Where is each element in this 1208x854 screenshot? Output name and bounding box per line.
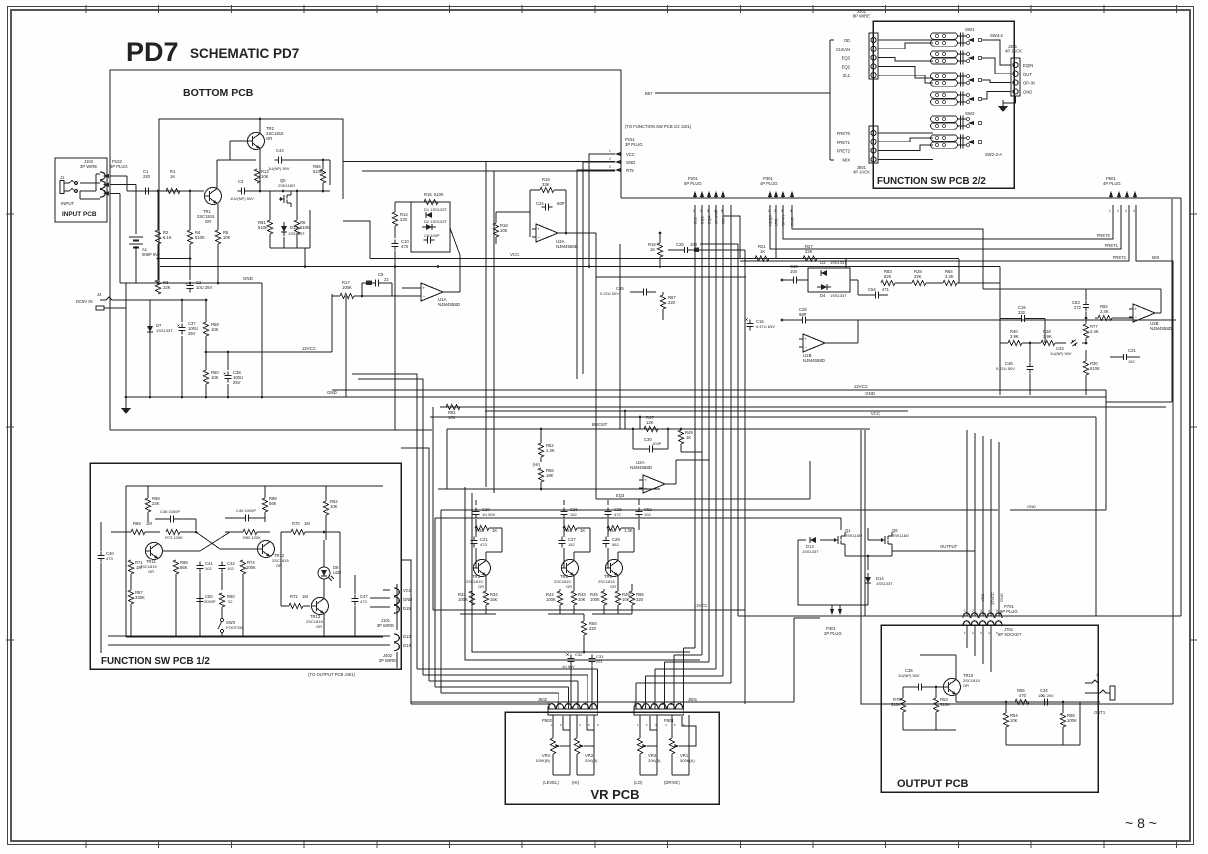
wire stair to VR J501 (684, 647, 696, 649)
battery A1 006P 9V (135, 185, 137, 234)
svg-text:510K: 510K (940, 702, 950, 707)
svg-text:GR: GR (478, 584, 484, 589)
resistor R61 (563, 525, 577, 530)
wire MIX long (1136, 205, 1173, 704)
capacitor C29 (605, 536, 607, 540)
svg-text:+: + (804, 337, 807, 342)
svg-text:C48 1000P: C48 1000P (160, 509, 180, 514)
svg-text:100K: 100K (246, 565, 256, 570)
BOTTOM PCB box outline (110, 70, 621, 430)
svg-text:1K: 1K (492, 528, 497, 533)
svg-text:GND: GND (327, 390, 337, 395)
svg-text:5: 5 (674, 723, 676, 727)
diode D4 1SS133T (821, 284, 827, 290)
svg-text:5P PLUG: 5P PLUG (684, 181, 702, 186)
svg-text:1K: 1K (760, 249, 765, 254)
wire line into P401 from left (794, 617, 820, 619)
svg-text:4P JACK: 4P JACK (853, 170, 870, 175)
svg-text:1.3K: 1.3K (546, 448, 555, 453)
diode D2 1SS133T (426, 224, 432, 230)
svg-text:103: 103 (690, 242, 698, 247)
wires stage TR3 (475, 500, 477, 505)
capacitor C37 100U 25V (181, 323, 183, 327)
svg-text:6: 6 (597, 723, 599, 727)
svg-text:3.9K: 3.9K (1043, 334, 1052, 339)
svg-text:1M: 1M (302, 594, 308, 599)
svg-text:4P PLUG: 4P PLUG (760, 181, 778, 186)
svg-text:510K: 510K (300, 225, 310, 230)
transistor TR8 (562, 560, 579, 577)
capacitor C44 1U(NP)50V (274, 159, 278, 161)
wires bias network (157, 191, 159, 230)
capacitor C35 1U(NP) 50V (914, 686, 918, 688)
svg-text:3: 3 (980, 631, 982, 635)
svg-text:1: 1 (964, 609, 966, 613)
svg-text:1: 1 (964, 631, 966, 635)
svg-text:10K: 10K (1010, 718, 1018, 723)
resistor R46 (615, 591, 620, 605)
svg-text:4: 4 (714, 209, 716, 213)
wire J101 stack vertical (396, 584, 398, 630)
svg-text:10K: 10K (578, 597, 586, 602)
svg-text:INPUT: INPUT (61, 201, 74, 206)
svg-text:(TO OUTPUT PCB J401): (TO OUTPUT PCB J401) (308, 672, 355, 677)
resistor R43 (571, 591, 576, 605)
svg-text:510K: 510K (195, 235, 205, 240)
svg-text:2P PLUG: 2P PLUG (824, 631, 842, 636)
svg-text:470: 470 (1019, 693, 1027, 698)
rail 12VCC lower (433, 609, 745, 611)
svg-text:1M: 1M (304, 521, 310, 526)
svg-text:(HI): (HI) (572, 780, 580, 785)
svg-text:3: 3 (980, 609, 982, 613)
svg-text:100K: 100K (342, 285, 352, 290)
wire rail y518 (435, 517, 841, 519)
svg-text:510K: 510K (1090, 366, 1100, 371)
svg-text:1K: 1K (650, 247, 655, 252)
svg-text:5: 5 (721, 209, 723, 213)
wire DC rail (117, 299, 119, 301)
svg-text:SCHEMATIC PD7: SCHEMATIC PD7 (190, 46, 299, 61)
svg-text:C33: C33 (596, 654, 604, 659)
pot VR4 100K(B) LEVEL (552, 715, 554, 738)
svg-text:22K: 22K (152, 501, 160, 506)
svg-text:C49 1000P: C49 1000P (236, 508, 256, 513)
resistor R74 100K (240, 560, 245, 574)
resistor R60 10K (203, 370, 208, 384)
svg-text:SW1: SW1 (965, 27, 975, 32)
svg-text:2: 2 (671, 702, 673, 706)
svg-text:R70: R70 (292, 521, 300, 526)
svg-text:4: 4 (1133, 209, 1135, 213)
svg-text:2: 2 (1117, 209, 1119, 213)
wire bundle line7 to output feed (737, 244, 739, 616)
svg-text:(TO FUNCTION SW PCB 1/2 J101): (TO FUNCTION SW PCB 1/2 J101) (625, 124, 692, 129)
svg-text:J1: J1 (60, 175, 65, 180)
svg-text:BOOST: BOOST (592, 422, 608, 427)
svg-text:100K: 100K (1067, 718, 1077, 723)
svg-text:GND: GND (243, 276, 253, 281)
svg-text:3.9K: 3.9K (1010, 334, 1019, 339)
svg-text:10K: 10K (500, 228, 508, 233)
resistor R54 10K (1003, 713, 1008, 727)
svg-text:2: 2 (972, 609, 974, 613)
capacitor C45 0.22U 50V (639, 291, 643, 293)
resistor R82 2.4K (1098, 315, 1112, 320)
capacitor C25 103 (680, 249, 684, 251)
svg-text:1M: 1M (146, 521, 152, 526)
wire C1-R1 (152, 190, 166, 192)
svg-text:510K: 510K (313, 169, 323, 174)
svg-text:DC9V IN: DC9V IN (76, 299, 93, 304)
wire TR2 (230, 140, 247, 142)
svg-text:2: 2 (585, 702, 587, 706)
wires below J701 (966, 626, 968, 648)
svg-text:C8 100P: C8 100P (424, 233, 440, 238)
svg-text:4: 4 (988, 609, 990, 613)
wires J201 to switches (878, 39, 933, 41)
capacitor C27 (561, 536, 563, 540)
connector J101 3P WIRE (394, 588, 399, 613)
resistor R66 220 (629, 591, 634, 605)
svg-text:20K(B): 20K(B) (648, 758, 661, 763)
svg-text:0.47U 63V: 0.47U 63V (756, 324, 775, 329)
boost box (438, 429, 447, 489)
svg-text:3P WIRE: 3P WIRE (377, 623, 394, 628)
svg-text:FOOTSW: FOOTSW (226, 625, 244, 630)
svg-text:3P PLUG: 3P PLUG (110, 164, 128, 169)
svg-text:1: 1 (594, 702, 596, 706)
svg-text:GR: GR (148, 569, 154, 574)
svg-text:1: 1 (680, 702, 682, 706)
svg-text:INPUT PCB: INPUT PCB (62, 211, 97, 218)
capacitor C50 2000P (199, 594, 201, 598)
svg-text:2: 2 (609, 157, 611, 161)
capacitor C28 68P (798, 319, 802, 321)
svg-text:100K: 100K (590, 597, 600, 602)
svg-text:510K: 510K (891, 702, 901, 707)
svg-text:SW2-3-A: SW2-3-A (985, 152, 1002, 157)
svg-text:3: 3 (576, 702, 578, 706)
diode block box (808, 268, 850, 292)
wires J101 (339, 532, 341, 588)
svg-text:15K: 15K (490, 597, 498, 602)
svg-text:−: − (423, 294, 426, 299)
svg-text:10K: 10K (622, 597, 630, 602)
resistor R30 510K (1083, 361, 1088, 375)
rail y407 (440, 406, 1166, 408)
capacitor C30 103 (645, 448, 649, 450)
svg-text:C54: C54 (868, 287, 876, 292)
svg-text:220: 220 (400, 217, 408, 222)
svg-text:10K: 10K (261, 174, 269, 179)
stair into J502 (411, 703, 549, 705)
svg-text:R73 100K: R73 100K (165, 535, 183, 540)
svg-text:10K: 10K (223, 235, 231, 240)
svg-text:4: 4 (652, 702, 654, 706)
wire long GND rail (126, 396, 1106, 398)
resistor R5 10K (215, 230, 220, 244)
svg-text:OP-IN: OP-IN (1023, 81, 1035, 86)
svg-text:NJM4558D: NJM4558D (438, 302, 460, 307)
wire plug outputs (110, 175, 127, 177)
svg-text:J4: J4 (97, 292, 102, 297)
diode D1 1SS133T (426, 212, 432, 218)
capacitor C46 0.22U 50V (1029, 362, 1031, 366)
pot VR2 20K(B) HI (576, 715, 578, 738)
svg-text:D1 1SS133T: D1 1SS133T (424, 207, 447, 212)
wires diode block (800, 279, 808, 281)
fet Q6 2SK118O (880, 539, 885, 541)
FUNCTION SW PCB 1/2 box (90, 463, 401, 669)
block box Q1 (798, 540, 845, 605)
resistor R4 510K (187, 230, 192, 244)
svg-text:3: 3 (707, 209, 709, 213)
resistor R84 3.3K (943, 280, 957, 285)
svg-text:3.3K: 3.3K (945, 274, 954, 279)
svg-text:4P PLUG: 4P PLUG (1103, 181, 1121, 186)
svg-text:102: 102 (644, 512, 651, 517)
svg-text:152: 152 (570, 512, 577, 517)
resistor R77 2.4K (1083, 324, 1088, 338)
wire long left verticals (432, 407, 434, 610)
svg-text:OD: OD (844, 38, 850, 43)
wires out net (1005, 702, 1007, 713)
resistor R75 510K (900, 698, 905, 712)
svg-text:2: 2 (104, 181, 106, 185)
resistor R81 510K (267, 220, 272, 234)
svg-text:OUT: OUT (1023, 72, 1032, 77)
wire OUTPUT (892, 551, 975, 556)
svg-text:12VCC: 12VCC (854, 384, 868, 389)
pot VR3 20K(B) LO (639, 715, 641, 738)
svg-text:2SK118O: 2SK118O (892, 533, 909, 538)
svg-text:22: 22 (384, 277, 389, 282)
capacitor C2 10U 25V (189, 281, 191, 285)
resistor R42 (557, 591, 562, 605)
eq stage boxes (465, 487, 700, 660)
rail y411 (485, 410, 908, 412)
wire TR1 collector up (216, 160, 218, 189)
svg-text:22: 22 (228, 599, 233, 604)
wire P151 pins (589, 154, 615, 267)
capacitor C40 473 (100, 551, 102, 555)
switch units (931, 33, 958, 39)
svg-text:104: 104 (790, 269, 798, 274)
capacitor C38 100U 25V (227, 371, 229, 375)
capacitor C3 1U2(NP)50V (237, 190, 241, 192)
wires P301 nets to right (770, 205, 1121, 249)
resistor R34 (483, 591, 488, 605)
wires Q5 cluster (269, 191, 271, 220)
resistor R98 56K (173, 560, 178, 574)
svg-text:GND: GND (626, 160, 635, 165)
svg-text:FRET1: FRET1 (837, 140, 851, 145)
svg-text:10K: 10K (211, 327, 219, 332)
svg-text:1SS133T: 1SS133T (802, 549, 819, 554)
diode D13 1SS133T (810, 537, 816, 543)
svg-text:2.4K: 2.4K (1090, 329, 1099, 334)
resistor R88 56K (262, 498, 267, 512)
svg-text:1K: 1K (580, 528, 585, 533)
svg-text:EQ2: EQ2 (842, 64, 851, 69)
op-amp U3A NJM4558D (536, 224, 558, 242)
svg-text:D2 1SS133T: D2 1SS133T (424, 219, 447, 224)
svg-text:103P: 103P (652, 441, 662, 446)
svg-text:20K(B): 20K(B) (585, 758, 598, 763)
svg-text:FRET0: FRET0 (837, 131, 851, 136)
svg-text:330K: 330K (135, 595, 145, 600)
svg-text:GR: GR (205, 219, 211, 224)
svg-text:C44: C44 (276, 148, 284, 153)
svg-text:2: 2 (972, 631, 974, 635)
diode D3 1SS133T (821, 270, 827, 276)
capacitor C34 10U 25V (1040, 701, 1044, 703)
resistor R52 1.3K (538, 443, 543, 457)
wires output stage (903, 686, 915, 688)
vertical feeders x486 x494 (485, 162, 487, 488)
svg-text:1SS133T: 1SS133T (156, 328, 173, 333)
resistor R28 3.9K (1041, 340, 1055, 345)
svg-text:GND: GND (1027, 504, 1036, 509)
rail 12VCC long (332, 389, 1106, 391)
svg-text:220: 220 (143, 174, 151, 179)
resistor R69 1M (131, 529, 145, 534)
resistor R68 22K (145, 498, 150, 512)
svg-text:4P JACK: 4P JACK (1005, 49, 1022, 54)
diode D7 1SS133T (147, 326, 153, 332)
wires C28 row (782, 319, 799, 321)
svg-text:4: 4 (579, 723, 581, 727)
svg-text:ZL1: ZL1 (843, 73, 851, 78)
svg-text:FRET2: FRET2 (837, 149, 851, 154)
capacitor C41 102 (199, 561, 201, 565)
svg-text:5: 5 (643, 702, 645, 706)
svg-text:100K: 100K (458, 597, 468, 602)
svg-text:EQ3: EQ3 (616, 493, 625, 498)
wire right verticals x1172 x1181 (1171, 199, 1173, 402)
resistor R18 10K (493, 223, 498, 237)
connector J801 4P WIRE lower (869, 126, 878, 163)
capacitor C9 22 (371, 282, 375, 284)
svg-text:10K: 10K (448, 415, 456, 420)
transistor TR2 2SC1815 (248, 133, 265, 150)
clip block box (411, 202, 450, 252)
svg-text:2: 2 (560, 723, 562, 727)
svg-text:152: 152 (1128, 359, 1135, 364)
svg-text:+: + (1134, 307, 1137, 312)
svg-text:R44: R44 (608, 528, 616, 533)
resistor R70 1M (291, 529, 305, 534)
svg-text:FUNCTION SW PCB 1/2: FUNCTION SW PCB 1/2 (101, 656, 210, 667)
resistor R71 1M (128, 560, 133, 574)
resistor R73 100K (166, 529, 180, 534)
resistor R2 6.1K (155, 230, 160, 244)
transistor TR11 2SC1815 (146, 543, 163, 560)
svg-text:3: 3 (609, 165, 611, 169)
capacitor C8 100P (423, 239, 427, 241)
svg-text:1: 1 (768, 209, 770, 213)
resistor R13 10K (254, 169, 259, 183)
wire left feeders to J502 (352, 374, 417, 669)
svg-text:D14: D14 (403, 643, 411, 648)
svg-text:PD7: PD7 (126, 37, 179, 67)
capacitor C28 (607, 507, 609, 511)
resistor R58 100K (1060, 713, 1065, 727)
wires J402 (110, 644, 390, 646)
svg-text:−: − (645, 486, 648, 491)
svg-text:66P: 66P (557, 201, 565, 206)
svg-text:272: 272 (1074, 305, 1082, 310)
FUNCTION SW PCB 2/2 box (873, 21, 1014, 188)
svg-text:GND: GND (1023, 89, 1032, 94)
wires Q1 Q6 (798, 539, 806, 541)
wire bundle center verticals (694, 205, 696, 648)
wire 12VCC rail (206, 351, 332, 353)
wire jack to connector (80, 182, 100, 184)
svg-text:473: 473 (401, 244, 409, 249)
svg-text:GR: GR (963, 683, 969, 688)
svg-text:473: 473 (480, 542, 487, 547)
resistor R55 470 (1015, 699, 1029, 704)
svg-text:332: 332 (1018, 310, 1026, 315)
capacitor C24 66P (541, 206, 545, 208)
svg-text:(LO): (LO) (634, 780, 643, 785)
svg-text:220: 220 (589, 626, 597, 631)
svg-text:6.1K: 6.1K (163, 235, 172, 240)
svg-text:3P WIRE: 3P WIRE (80, 164, 97, 169)
svg-text:FUNCTION SW PCB 2/2: FUNCTION SW PCB 2/2 (877, 176, 986, 187)
pot VR1 500K(A) DRIVE (671, 715, 673, 738)
transistor TR3 (474, 560, 491, 577)
svg-text:4: 4 (790, 209, 792, 213)
svg-text:OUT1: OUT1 (1094, 710, 1106, 715)
wire FRET2 long (740, 205, 1129, 261)
led D9 (318, 567, 330, 579)
svg-text:VCC: VCC (510, 252, 519, 257)
svg-text:C25: C25 (676, 242, 684, 247)
svg-text:R15: R15 (424, 192, 432, 197)
svg-text:5: 5 (996, 609, 998, 613)
capacitor C13 104 (789, 279, 793, 281)
capacitor C48 1000P (166, 518, 170, 520)
svg-text:510K: 510K (258, 225, 268, 230)
resistor R27 22K (803, 256, 817, 261)
svg-text:3: 3 (1125, 209, 1127, 213)
op-amp U1A NJM4558D (421, 283, 443, 301)
svg-text:(DRIVE): (DRIVE) (664, 780, 680, 785)
svg-text:22K: 22K (163, 285, 171, 290)
svg-text:1SS133T: 1SS133T (830, 293, 847, 298)
svg-text:D4: D4 (820, 293, 826, 298)
svg-text:FRET1: FRET1 (1105, 243, 1119, 248)
svg-text:VR PCB: VR PCB (590, 787, 639, 802)
svg-text:56K: 56K (180, 565, 188, 570)
wires U3B (983, 288, 1161, 290)
svg-text:33K: 33K (542, 182, 550, 187)
capacitor C43 1U(NP)50V (1069, 338, 1078, 347)
svg-text:R32: R32 (476, 528, 484, 533)
wires power (150, 299, 206, 301)
svg-text:3: 3 (104, 189, 106, 193)
capacitor C49 1000P (241, 517, 245, 519)
svg-text:−: − (805, 345, 808, 350)
svg-text:D3: D3 (820, 260, 826, 265)
svg-text:(LEVEL): (LEVEL) (543, 780, 559, 785)
resistor R21 1K (755, 256, 769, 261)
wire feed y616 (738, 615, 1181, 617)
svg-text:100K(B): 100K(B) (535, 758, 550, 763)
